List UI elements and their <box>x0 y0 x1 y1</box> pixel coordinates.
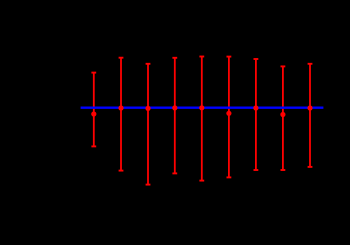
error bar 3 stem <box>147 64 149 185</box>
error bar 8 bottom cap <box>281 169 286 171</box>
error bar 2 stem <box>120 58 122 171</box>
error bar 5 stem <box>201 57 203 181</box>
error bar 1 top cap <box>91 72 96 74</box>
error bar 4 top cap <box>172 57 177 59</box>
error bar 9 top cap <box>308 63 313 65</box>
data marker 4 <box>172 105 177 110</box>
error bar 9 bottom cap <box>308 166 313 168</box>
error bar 7 stem <box>255 59 257 170</box>
data marker 1 <box>91 111 96 116</box>
data marker 5 <box>199 105 204 110</box>
fit line (horizontal blue) <box>81 106 324 108</box>
error bar 4 stem <box>174 58 176 174</box>
error bar 1 bottom cap <box>91 145 96 147</box>
data marker 7 <box>253 105 258 110</box>
data marker 8 <box>280 112 285 117</box>
data marker 6 <box>226 111 231 116</box>
error bar 6 top cap <box>227 56 232 58</box>
error bar 4 bottom cap <box>172 172 177 174</box>
error bar 3 top cap <box>146 63 151 65</box>
error bar 7 top cap <box>254 58 259 60</box>
error bar 2 bottom cap <box>119 170 124 172</box>
error bar 2 top cap <box>119 57 124 59</box>
error bar 3 bottom cap <box>146 184 151 186</box>
error bar 6 stem <box>228 57 230 178</box>
error bar 1 stem <box>93 73 95 147</box>
error bar 6 bottom cap <box>227 176 232 178</box>
error bar 5 bottom cap <box>199 180 204 182</box>
error bar 9 stem <box>309 64 311 167</box>
error bar 8 stem <box>282 66 284 170</box>
error bar 5 top cap <box>199 56 204 58</box>
error bar 8 top cap <box>281 65 286 67</box>
data marker 3 <box>145 106 150 111</box>
data marker 2 <box>118 105 123 110</box>
error bar 7 bottom cap <box>254 169 259 171</box>
data marker 9 <box>307 105 312 110</box>
